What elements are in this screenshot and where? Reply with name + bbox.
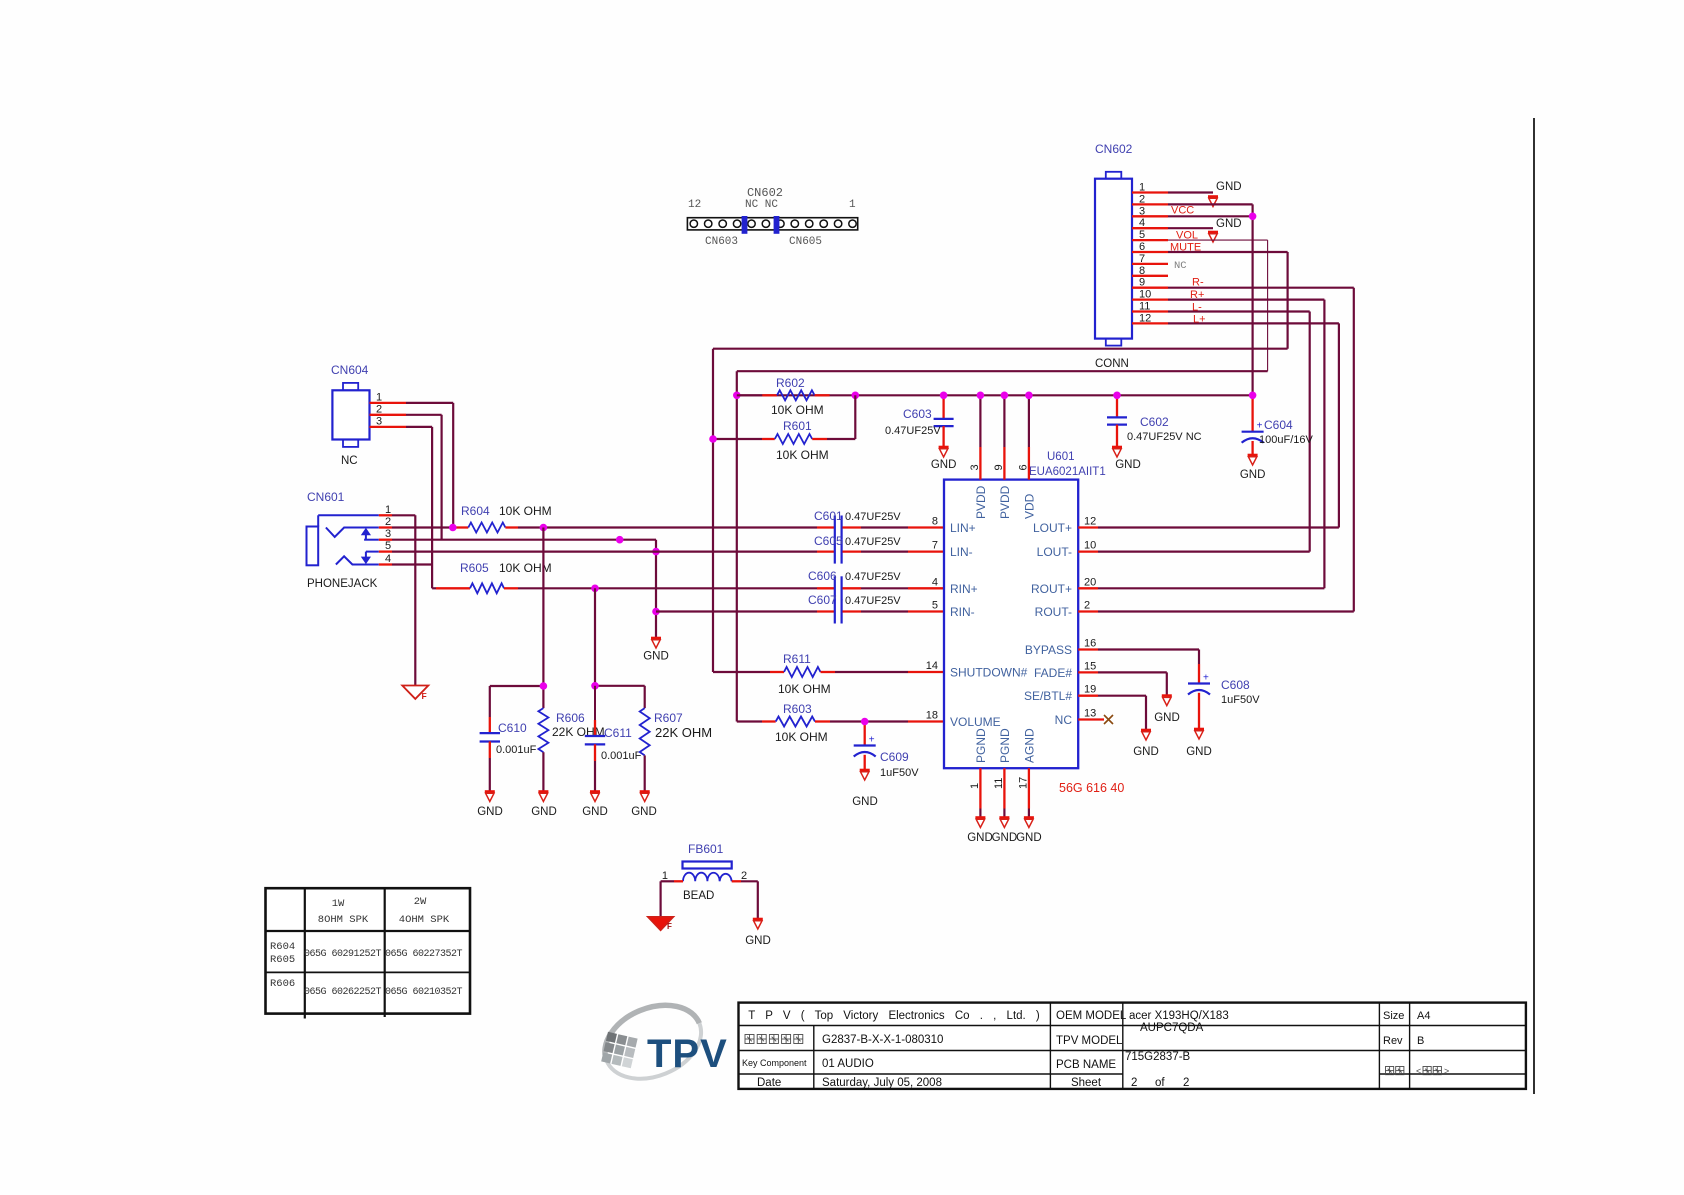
capacitor C607 <box>817 600 861 624</box>
svg-text:TPV MODEL: TPV MODEL <box>1056 1035 1123 1047</box>
svg-text:BYPASS: BYPASS <box>1025 643 1072 657</box>
svg-text:G2837-B-X-X-1-080310: G2837-B-X-X-1-080310 <box>822 1034 943 1046</box>
wire pin3 net down <box>655 540 657 638</box>
U601 pin 3 PVDD (top) <box>979 395 981 447</box>
U601 pin 16 BYPASS <box>1078 648 1098 650</box>
op-amp U601 EUA6021AIIT1 <box>944 480 1078 769</box>
svg-text:R611: R611 <box>783 652 811 666</box>
svg-text:1: 1 <box>385 504 391 516</box>
svg-text:TPV: TPV <box>647 1032 728 1076</box>
svg-text:T P V ( Top Victory Electronic: T P V ( Top Victory Electronics Co . , L… <box>748 1010 1040 1022</box>
CN601 pin 3 stub <box>379 539 392 541</box>
wire VCC rail <box>737 394 1253 396</box>
svg-text:10: 10 <box>1084 540 1096 552</box>
wire C610 link <box>490 685 544 687</box>
svg-text:>: > <box>1444 1066 1449 1076</box>
table speaker options <box>266 888 471 1018</box>
svg-text:GND: GND <box>745 935 771 947</box>
svg-text:R601: R601 <box>783 419 812 433</box>
svg-text:Size: Size <box>1383 1010 1404 1022</box>
svg-text:065G 60291252T: 065G 60291252T <box>304 949 382 960</box>
CN602 pin 12 stub <box>1132 322 1168 324</box>
ground GND (CN602 pin1) <box>1208 195 1218 198</box>
svg-text:12: 12 <box>1084 516 1096 528</box>
CN601 pin 4 stub <box>379 563 392 565</box>
ground GND (C604) <box>1248 454 1258 457</box>
svg-text:R603: R603 <box>783 702 812 716</box>
CN602 pin 1 stub <box>1132 191 1168 193</box>
title block <box>739 1003 1526 1089</box>
svg-text:3: 3 <box>1139 205 1145 217</box>
ground GND (C608) <box>1194 728 1204 731</box>
wire BYPASS to C608 <box>1098 648 1199 650</box>
svg-text:LIN-: LIN- <box>950 545 973 559</box>
ground GND (C610) <box>485 790 495 793</box>
svg-text:F: F <box>667 922 672 931</box>
svg-text:14: 14 <box>926 660 938 672</box>
svg-text:GND: GND <box>1216 218 1242 230</box>
wire C611/R607 link <box>595 685 645 687</box>
svg-text:MUTE: MUTE <box>1170 242 1201 254</box>
wire CN604 pin1 <box>406 402 453 404</box>
junction R602/R601 <box>852 392 860 400</box>
wire MUTE rail <box>713 348 1288 350</box>
svg-text:C604: C604 <box>1264 418 1293 432</box>
svg-text:1: 1 <box>1139 182 1145 194</box>
svg-text:NC: NC <box>341 455 358 467</box>
CN602 pin 5 stub <box>1132 239 1168 241</box>
svg-text:2: 2 <box>376 403 382 415</box>
svg-text:8: 8 <box>1139 265 1145 277</box>
svg-text:GND: GND <box>643 651 669 663</box>
svg-text:EUA6021AIIT1: EUA6021AIIT1 <box>1029 466 1106 478</box>
resistor R605 <box>432 583 518 593</box>
CN602 pin 11 stub <box>1132 310 1168 312</box>
CN601 pin 5 stub <box>379 550 392 552</box>
wire RIN- row <box>656 610 817 612</box>
svg-text:3: 3 <box>385 528 391 540</box>
svg-text:R602: R602 <box>776 376 805 390</box>
CN602 pin 2 stub <box>1132 203 1168 205</box>
svg-text:acer X193HQ/X183: acer X193HQ/X183 <box>1129 1010 1229 1022</box>
svg-text:065G 60210352T: 065G 60210352T <box>385 987 463 998</box>
U601 pin 20 ROUT+ <box>1078 587 1098 589</box>
svg-text:9: 9 <box>993 464 1005 470</box>
ferrite bead FB601 <box>683 862 732 882</box>
CN602 pin 6 stub <box>1132 251 1168 253</box>
svg-text:+: + <box>1203 673 1209 684</box>
wire L+ net from pin12 <box>1168 322 1339 324</box>
svg-text:VOLUME: VOLUME <box>950 715 1001 729</box>
junction C611 <box>591 682 599 690</box>
svg-text:4: 4 <box>932 576 938 588</box>
svg-text:NC: NC <box>1174 260 1187 272</box>
svg-text:0.001uF: 0.001uF <box>601 750 642 762</box>
svg-text:15: 15 <box>1084 661 1096 673</box>
wire VOL net from pin5 <box>1168 239 1268 241</box>
svg-text:CN602: CN602 <box>747 186 783 200</box>
svg-text:OEM MODEL: OEM MODEL <box>1056 1010 1127 1022</box>
svg-text:9: 9 <box>1139 277 1145 289</box>
svg-text:C609: C609 <box>880 750 909 764</box>
svg-text:01 AUDIO: 01 AUDIO <box>822 1058 874 1070</box>
svg-text:ROUT+: ROUT+ <box>1031 582 1072 596</box>
capacitor C608 (electrolytic) <box>1188 664 1210 729</box>
junction VCC pins 2-3 <box>1249 213 1257 221</box>
resistor R601 <box>713 395 855 444</box>
wire CN602 pin3 VCC <box>1168 215 1253 217</box>
svg-text:A4: A4 <box>1417 1010 1430 1022</box>
svg-text:0.001uF: 0.001uF <box>496 744 537 756</box>
svg-text:22K OHM: 22K OHM <box>655 725 712 740</box>
CN602 pin 10 stub <box>1132 298 1168 300</box>
svg-text:GND: GND <box>1186 746 1212 758</box>
wire jack pin4 to R605 <box>392 563 432 565</box>
junction VCC/PVDD3 <box>977 392 985 400</box>
svg-text:10K OHM: 10K OHM <box>776 448 829 462</box>
CN604 pin 1 stub <box>370 402 407 404</box>
svg-text:Date: Date <box>757 1077 781 1089</box>
U601 pin 1 PGND (bottom) <box>979 768 981 808</box>
svg-text:PVDD: PVDD <box>998 485 1012 519</box>
svg-text:B: B <box>1417 1035 1424 1047</box>
junction C603 <box>940 392 948 400</box>
svg-text:L-: L- <box>1192 302 1202 314</box>
svg-text:Rev: Rev <box>1383 1035 1403 1047</box>
junction MUTE/R601 <box>709 435 717 443</box>
svg-text:RIN-: RIN- <box>950 605 975 619</box>
capacitor C610 <box>480 717 500 792</box>
svg-text:F: F <box>422 691 427 701</box>
junction C602 <box>1113 392 1121 400</box>
wire SE/BTL# to GND <box>1098 695 1146 697</box>
svg-text:GND: GND <box>1154 712 1180 724</box>
svg-text:GND: GND <box>1133 746 1159 758</box>
svg-text:5: 5 <box>385 540 391 552</box>
svg-text:GND: GND <box>1016 832 1042 844</box>
svg-text:12: 12 <box>688 199 701 211</box>
capacitor C603 <box>934 395 954 447</box>
svg-text:CN602: CN602 <box>1095 142 1133 156</box>
capacitor C602 <box>1107 395 1127 447</box>
svg-text:C607: C607 <box>808 593 837 607</box>
svg-text:0.47UF25V: 0.47UF25V <box>845 536 901 548</box>
svg-text:C608: C608 <box>1221 678 1250 692</box>
wire ROUT- net <box>1098 610 1354 612</box>
svg-text:2: 2 <box>1139 193 1145 205</box>
ground GND (FB601) <box>753 918 763 921</box>
svg-text:6: 6 <box>1139 241 1145 253</box>
wire LOUT- net <box>1098 550 1310 552</box>
U601 pin 13 NC <box>1078 718 1104 720</box>
svg-text:1uF50V: 1uF50V <box>880 767 919 779</box>
svg-text:FADE#: FADE# <box>1034 666 1072 680</box>
svg-text:4: 4 <box>385 553 391 565</box>
svg-text:8OHM SPK: 8OHM SPK <box>318 914 369 926</box>
wire FB601 pin1 to chassis <box>661 880 674 882</box>
svg-text:GND: GND <box>852 796 878 808</box>
svg-text:12: 12 <box>1139 312 1151 324</box>
svg-text:ROUT-: ROUT- <box>1035 605 1072 619</box>
svg-text:PHONEJACK: PHONEJACK <box>307 578 378 590</box>
svg-text:2W: 2W <box>414 896 427 908</box>
svg-text:16: 16 <box>1084 638 1096 650</box>
wire ROUT+ net <box>1098 587 1324 589</box>
svg-text:SE/BTL#: SE/BTL# <box>1024 689 1072 703</box>
CN601 pin 1 stub <box>379 514 392 516</box>
svg-text:CN604: CN604 <box>331 363 369 377</box>
svg-text:LOUT+: LOUT+ <box>1033 521 1072 535</box>
svg-text:AGND: AGND <box>1023 728 1037 763</box>
svg-text:VCC: VCC <box>1171 205 1194 217</box>
svg-text:1uF50V: 1uF50V <box>1221 694 1260 706</box>
svg-text:13: 13 <box>1084 708 1096 720</box>
wire FADE# to GND <box>1098 671 1167 673</box>
svg-text:11: 11 <box>1139 301 1150 313</box>
svg-text:GND: GND <box>1240 469 1266 481</box>
svg-text:NC NC: NC NC <box>745 199 778 211</box>
svg-text:GND: GND <box>1216 181 1242 193</box>
svg-text:1W: 1W <box>332 898 345 910</box>
svg-text:19: 19 <box>1084 684 1096 696</box>
no-connect X (pin13) <box>1104 715 1113 724</box>
resistor R606 <box>538 708 548 791</box>
svg-text:10K OHM: 10K OHM <box>499 504 552 518</box>
resistor R607 <box>640 708 650 791</box>
svg-text:065G 60262252T: 065G 60262252T <box>304 987 382 998</box>
svg-text:GND: GND <box>631 806 657 818</box>
svg-text:GND: GND <box>1115 459 1141 471</box>
connector CN604 <box>332 383 369 447</box>
CN602 pin 7 stub <box>1132 263 1168 265</box>
ground GND (CN602 pin4) <box>1208 231 1218 234</box>
wire jack pin1 to chassis <box>392 514 415 516</box>
resistor R602 <box>737 390 830 400</box>
ground GND (C602) <box>1112 446 1122 449</box>
wire VOL rail (CONN) <box>737 370 1268 372</box>
svg-text:<: < <box>1416 1066 1421 1076</box>
ground GND (U601 pin 11) <box>999 816 1009 819</box>
svg-text:FB601: FB601 <box>688 842 724 856</box>
svg-text:4: 4 <box>1139 217 1145 229</box>
svg-text:7: 7 <box>932 540 938 552</box>
ground GND (C609) <box>860 769 870 772</box>
svg-text:PCB NAME: PCB NAME <box>1056 1059 1116 1071</box>
CN604 pin 3 stub <box>370 426 407 428</box>
svg-text:8: 8 <box>932 516 938 528</box>
wire CN602 pin4 to GND <box>1168 227 1213 229</box>
svg-text:0.47UF25V: 0.47UF25V <box>845 511 901 523</box>
svg-text:11: 11 <box>993 778 1005 789</box>
wire L- net from pin11 <box>1168 310 1310 312</box>
svg-text:CN605: CN605 <box>789 236 822 248</box>
svg-text:2: 2 <box>385 516 391 528</box>
ground GND (FADE#) <box>1162 694 1172 697</box>
ground GND (R606) <box>538 790 548 793</box>
svg-text:5: 5 <box>932 600 938 612</box>
svg-text:1: 1 <box>969 783 981 789</box>
svg-text:6: 6 <box>1017 464 1029 470</box>
wire CN604 pin2 <box>406 414 442 416</box>
svg-text:VDD: VDD <box>1023 493 1037 519</box>
svg-text:C611: C611 <box>604 726 632 740</box>
U601 pin 17 AGND (bottom) <box>1028 768 1030 808</box>
connector CN602 symbol <box>1095 172 1132 346</box>
junction RIN- tie <box>652 608 660 616</box>
CN602 pin 9 stub <box>1132 287 1168 289</box>
ground GND (C603) <box>939 446 949 449</box>
svg-text:0.47UF25V: 0.47UF25V <box>845 595 901 607</box>
svg-text:C602: C602 <box>1140 415 1169 429</box>
junction pin3 net <box>616 536 624 544</box>
svg-text:2: 2 <box>1183 1077 1189 1089</box>
connector CN601 phonejack <box>307 515 379 565</box>
svg-text:3: 3 <box>969 464 981 470</box>
svg-text:Key Component: Key Component <box>742 1058 807 1068</box>
svg-text:of: of <box>1155 1077 1165 1089</box>
FB601 pin 1 <box>674 880 683 882</box>
svg-text:1: 1 <box>849 199 856 211</box>
svg-text:10: 10 <box>1139 289 1151 301</box>
wire CN602 pin2 VCC net <box>1168 203 1253 205</box>
svg-text:0.47UF25V NC: 0.47UF25V NC <box>1127 431 1202 443</box>
wire CN604 pin3 <box>406 426 432 428</box>
ground GND (C611) <box>590 790 600 793</box>
capacitor C605 <box>817 540 861 564</box>
svg-text:715G2837-B: 715G2837-B <box>1125 1051 1191 1063</box>
svg-text:R606: R606 <box>556 711 585 725</box>
svg-text:C610: C610 <box>498 721 527 735</box>
svg-text:0.47UF25V: 0.47UF25V <box>845 571 901 583</box>
ground GND (SE/BTL#) <box>1141 729 1151 732</box>
svg-text:R605: R605 <box>270 954 295 966</box>
U601 pin 12 LOUT+ <box>1078 526 1098 528</box>
svg-text:3: 3 <box>376 415 382 427</box>
svg-text:C606: C606 <box>808 569 837 583</box>
svg-text:R605: R605 <box>460 561 489 575</box>
resistor R611 <box>713 667 944 677</box>
U601 pin 6 VDD (top) <box>1028 395 1030 447</box>
junction R607 tap <box>591 585 599 593</box>
junction VOL/R602 <box>733 392 741 400</box>
svg-text:LIN+: LIN+ <box>950 521 976 535</box>
svg-text:CN601: CN601 <box>307 490 345 504</box>
junction CN604 pin1 / LIN+ <box>449 524 457 532</box>
svg-text:10K OHM: 10K OHM <box>771 403 824 417</box>
capacitor C609 (electrolytic) <box>854 722 876 771</box>
U601 pin 10 LOUT- <box>1078 550 1098 552</box>
svg-text:56G 616 40: 56G 616 40 <box>1059 781 1124 795</box>
FB601 pin 2 <box>732 880 741 882</box>
capacitor C606 <box>817 576 861 600</box>
svg-text:065G 60227352T: 065G 60227352T <box>385 949 463 960</box>
junction VCC/VDD6 <box>1025 392 1033 400</box>
U601 pin 19 SE/BTL# <box>1078 695 1098 697</box>
chassis ground F (FB601) <box>648 917 674 931</box>
wire CN602 pin1 to GND <box>1168 191 1213 193</box>
svg-text:GND: GND <box>531 806 557 818</box>
capacitor C611 <box>585 686 605 792</box>
svg-text:R607: R607 <box>654 711 683 725</box>
svg-text:GND: GND <box>967 832 993 844</box>
svg-text:5: 5 <box>1139 229 1145 241</box>
svg-text:+: + <box>869 735 875 746</box>
svg-text:R604: R604 <box>461 504 490 518</box>
svg-text:GND: GND <box>477 806 503 818</box>
svg-text:4OHM SPK: 4OHM SPK <box>399 914 450 926</box>
wire MUTE net from pin6 <box>1168 251 1288 253</box>
svg-text:RIN+: RIN+ <box>950 582 978 596</box>
svg-text:100uF/16V: 100uF/16V <box>1259 434 1313 446</box>
resistor R604 <box>456 523 518 533</box>
wire LIN+ row mid <box>518 526 817 528</box>
junction R606 tap <box>540 524 548 532</box>
connector CN602 physical pin header <box>687 216 857 234</box>
svg-text:R606: R606 <box>270 978 295 990</box>
CN601 pin 2 stub <box>379 526 392 528</box>
wire LOUT+ net <box>1098 526 1339 528</box>
svg-text:+: + <box>1257 421 1263 432</box>
svg-text:CN603: CN603 <box>705 236 738 248</box>
page fold border line <box>1533 118 1535 1094</box>
svg-text:PVDD: PVDD <box>974 485 988 519</box>
resistor R603 <box>737 717 944 727</box>
svg-text:R+: R+ <box>1190 289 1204 301</box>
junction VCC/C604 <box>1249 392 1257 400</box>
ground GND (U601 pin 17) <box>1024 816 1034 819</box>
junction C609 <box>861 718 869 726</box>
ground GND (U601 pin 1) <box>975 816 985 819</box>
capacitor C604 (electrolytic) <box>1242 395 1264 455</box>
svg-text:17: 17 <box>1017 777 1029 789</box>
svg-text:0.47UF25V: 0.47UF25V <box>885 425 941 437</box>
svg-text:R604: R604 <box>270 941 295 953</box>
svg-text:LOUT-: LOUT- <box>1037 545 1072 559</box>
wire R+ net from pin10 <box>1168 299 1324 301</box>
svg-text:PGND: PGND <box>998 728 1012 763</box>
svg-text:18: 18 <box>926 710 938 722</box>
capacitor C601 <box>817 516 861 540</box>
wire LIN- to U601 <box>861 550 908 552</box>
svg-text:GND: GND <box>582 806 608 818</box>
svg-text:NC: NC <box>1055 713 1073 727</box>
logo TPV <box>594 992 728 1093</box>
wire jack pin3 net <box>392 539 656 541</box>
CN602 pin 3 stub <box>1132 215 1168 217</box>
svg-text:PGND: PGND <box>974 728 988 763</box>
svg-text:1: 1 <box>376 391 382 403</box>
svg-text:VOL: VOL <box>1176 230 1198 242</box>
svg-text:C605: C605 <box>814 534 843 548</box>
CN602 pin 8 stub <box>1132 275 1168 277</box>
wire LIN+ row <box>392 526 456 528</box>
U601 pin 15 FADE# <box>1078 671 1098 673</box>
svg-text:Sheet: Sheet <box>1071 1077 1102 1089</box>
wire FB601 pin2 to GND <box>741 880 758 882</box>
wire LIN+ to U601 <box>861 526 908 528</box>
svg-text:L+: L+ <box>1193 314 1206 326</box>
wire RIN+ row mid <box>518 587 817 589</box>
svg-text:7: 7 <box>1139 253 1145 265</box>
svg-text:BEAD: BEAD <box>683 890 714 902</box>
svg-text:GND: GND <box>992 832 1018 844</box>
junction VCC/PVDD9 <box>1001 392 1009 400</box>
svg-text:10K OHM: 10K OHM <box>775 730 828 744</box>
svg-text:CONN: CONN <box>1095 358 1129 370</box>
svg-text:SHUTDOWN#: SHUTDOWN# <box>950 666 1028 680</box>
svg-text:AUPC7QDA: AUPC7QDA <box>1140 1022 1204 1034</box>
svg-text:Saturday, July 05, 2008: Saturday, July 05, 2008 <box>822 1077 942 1089</box>
